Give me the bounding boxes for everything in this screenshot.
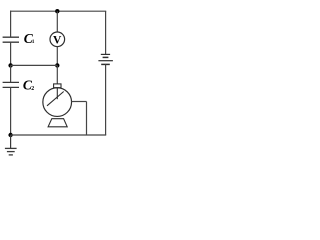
wire: left rail from C1 to middle junction xyxy=(10,42,12,65)
capacitor C2 xyxy=(3,82,19,87)
node: middle-left junction xyxy=(8,63,12,67)
wire: left rail from middle junction to C2 xyxy=(10,65,12,82)
ground xyxy=(5,135,17,155)
electrometer: terminal block xyxy=(54,84,61,88)
wire: left rail from C2 to bottom junction xyxy=(10,87,12,135)
node: top junction xyxy=(55,9,59,13)
wire: bottom rail xyxy=(11,134,107,136)
electrometer: inner rod xyxy=(56,88,58,100)
wire: right rail lower (battery down to bottom corner) xyxy=(105,64,107,135)
wire: middle rail xyxy=(11,64,58,66)
capacitor C1 xyxy=(3,37,19,42)
node: bottom-left junction xyxy=(8,133,12,137)
wire: right rail upper (top corner down to battery) xyxy=(105,11,107,54)
svg-text:V: V xyxy=(53,33,62,46)
wire: top rail xyxy=(10,10,106,12)
battery xyxy=(98,54,113,64)
electrometer: stand (trapezoid base) xyxy=(48,119,67,127)
wire: electrometer top stem xyxy=(56,65,58,84)
wire: right lead down to bottom rail xyxy=(86,102,88,136)
wire: voltmeter top stem xyxy=(56,11,58,32)
wire: left rail from top corner to C1 xyxy=(10,11,12,38)
electrometer: needle xyxy=(47,92,64,106)
electrometer: body circle xyxy=(43,88,72,117)
svg-text:2: 2 xyxy=(31,86,34,92)
node: middle junction at voltmeter/electrometer xyxy=(55,63,59,67)
wire: electrometer right lead xyxy=(72,101,87,103)
voltmeter V (circle) xyxy=(50,32,65,47)
wire: voltmeter bottom stem xyxy=(56,47,58,66)
svg-text:1: 1 xyxy=(32,39,35,45)
